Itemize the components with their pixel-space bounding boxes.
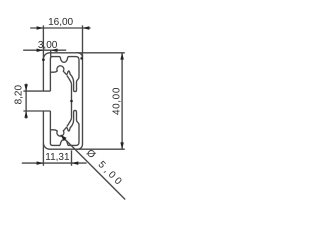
dim 16,00 witness lines [43, 25, 82, 58]
dim 8,20 line [25, 84, 27, 119]
leader line diameter [61, 135, 126, 200]
dim 11,31 line [22, 162, 87, 164]
dim 3,00 line [23, 49, 66, 51]
arrow 3,00 left [37, 48, 44, 52]
arrow 3,00 right [51, 48, 58, 52]
witness dot slot floor [70, 100, 73, 103]
leader arrowhead [61, 135, 67, 141]
arrow 11,31 right [72, 161, 79, 165]
lower cavity contour (mirror) [50, 110, 79, 145]
slot floor line [71, 84, 73, 117]
dim 3,00 right witness [50, 50, 52, 56]
witness dot right corner [80, 57, 83, 60]
witness dot left corner [42, 58, 45, 61]
upper cavity contour [50, 57, 79, 92]
dim 11,31 witness lines [43, 144, 71, 166]
arrow 8,20 top [24, 84, 28, 91]
arrow 40,00 top [120, 53, 124, 60]
svg-text:3,00: 3,00 [38, 40, 58, 51]
svg-text:8,20: 8,20 [14, 85, 25, 105]
dim 40,00 line [121, 53, 123, 149]
dim 16,00 line [30, 27, 90, 29]
slot lower lip + witness 8,20 bottom [23, 110, 50, 112]
arrow 40,00 bottom [120, 142, 124, 149]
arrow 16,00 right [83, 26, 90, 30]
svg-text:Ø 5,00: Ø 5,00 [84, 148, 126, 190]
upper web slit line [67, 75, 72, 84]
profile outer contour [43, 53, 82, 149]
slot upper lip + witness 8,20 top [23, 90, 50, 92]
svg-text:40,00: 40,00 [112, 87, 123, 115]
arrow 16,00 left [37, 26, 44, 30]
svg-text:11,31: 11,31 [45, 152, 70, 163]
arrow 11,31 left [37, 161, 44, 165]
svg-text:16,00: 16,00 [48, 17, 74, 28]
lower web slit line (mirror) [67, 118, 72, 127]
arrow 8,20 bottom [24, 111, 28, 118]
dim 40,00 witness lines [76, 53, 125, 149]
